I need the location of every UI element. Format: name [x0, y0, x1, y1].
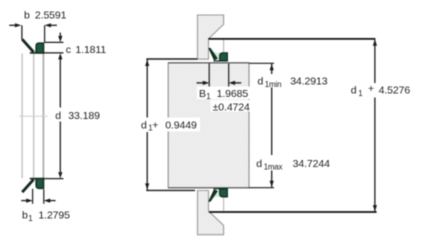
svg-text:34.2913: 34.2913: [290, 75, 328, 87]
svg-text:1.9685: 1.9685: [217, 88, 249, 100]
svg-text:1: 1: [358, 89, 363, 98]
svg-text:1.1811: 1.1811: [75, 44, 106, 56]
svg-text:1max: 1max: [264, 163, 283, 172]
svg-text:d: d: [258, 75, 264, 87]
svg-text:c: c: [66, 44, 71, 56]
svg-text:b: b: [22, 210, 28, 222]
svg-text:+: +: [368, 83, 374, 95]
svg-text:d: d: [141, 119, 147, 131]
svg-text:d: d: [256, 158, 262, 170]
svg-text:1: 1: [28, 214, 33, 223]
svg-text:+: +: [152, 119, 158, 131]
svg-text:4.5276: 4.5276: [379, 85, 411, 97]
svg-text:d: d: [55, 110, 61, 122]
svg-text:1.2795: 1.2795: [38, 210, 70, 222]
svg-text:1: 1: [206, 92, 211, 101]
svg-text:b: b: [24, 10, 30, 22]
svg-text:B: B: [199, 88, 206, 100]
svg-text:0.9449: 0.9449: [165, 119, 197, 131]
svg-text:2.5591: 2.5591: [35, 10, 67, 22]
svg-text:33.189: 33.189: [68, 110, 100, 122]
svg-text:34.7244: 34.7244: [293, 158, 331, 170]
svg-text:±0.4724: ±0.4724: [213, 101, 250, 113]
svg-text:d: d: [351, 85, 357, 97]
svg-text:1min: 1min: [265, 80, 282, 89]
